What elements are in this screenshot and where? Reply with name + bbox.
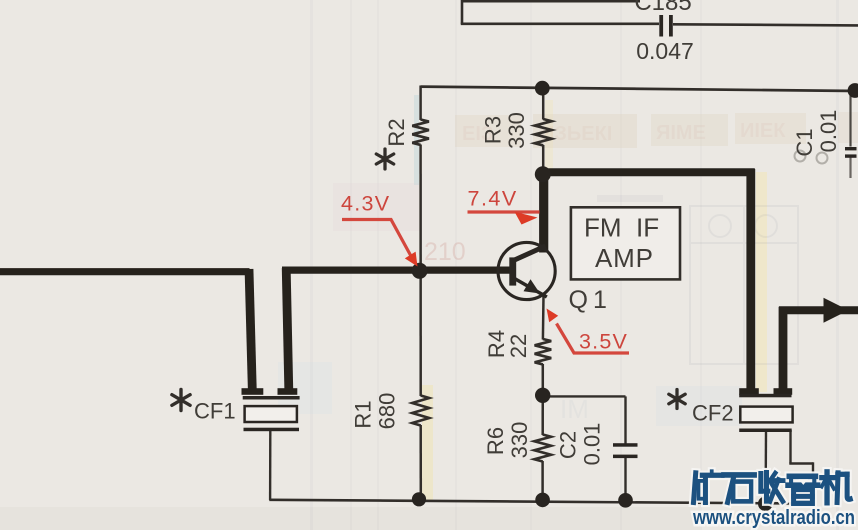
svg-text:www.crystalradio.cn: www.crystalradio.cn <box>692 506 855 529</box>
watermark char shi <box>724 475 754 502</box>
svg-text:ИЗЬЕКІ: ИЗЬЕКІ <box>540 123 612 145</box>
watermark char shou <box>761 473 783 502</box>
wire C2 branch vertical upper <box>624 396 626 443</box>
watermark char shi <box>724 475 754 502</box>
4.3V arrowhead <box>405 252 418 267</box>
resistor R3 zigzag <box>535 119 552 145</box>
wire left vertical R2/R1 branch upper <box>419 86 422 121</box>
svg-text:330: 330 <box>507 422 532 459</box>
watermark char kuang <box>694 471 723 502</box>
svg-text:0.047: 0.047 <box>636 38 694 64</box>
3.5V arrowhead <box>547 309 559 323</box>
wire CF2 right lead vertical <box>789 430 791 464</box>
FM IF AMP function box <box>571 207 680 279</box>
wire CF2 left terminal foot <box>739 388 759 395</box>
wire C185 right horizontal <box>673 24 858 25</box>
wire bottom ground rail <box>269 500 815 504</box>
node R1/ground rail <box>412 492 426 506</box>
node supply/R3 top <box>535 81 550 96</box>
ceramic filter CF2 body <box>739 394 792 432</box>
resistor R4 zigzag <box>535 339 552 364</box>
wire R3 vertical lower <box>542 145 545 172</box>
asterisk for CF1 <box>172 390 190 411</box>
svg-text:C1: C1 <box>792 128 817 156</box>
capacitor C185 plates <box>659 15 673 37</box>
ceramic filter CF1 body <box>243 396 300 431</box>
wire CF1 left terminal foot <box>242 388 264 395</box>
wire emitter to R4 <box>542 296 545 340</box>
svg-text:Q: Q <box>569 286 588 314</box>
svg-text:0.01: 0.01 <box>816 110 841 153</box>
watermark char shou <box>761 473 783 502</box>
wire thick base bus to Q1 <box>282 267 511 274</box>
7.4V arrowhead <box>515 212 538 225</box>
wire CF1 bottom lead <box>269 431 272 500</box>
wire thick collector bus horizontal <box>540 168 755 176</box>
wire C185 left horizontal <box>461 22 659 25</box>
svg-text:R1: R1 <box>351 400 376 428</box>
svg-text:ЯІМЕ: ЯІМЕ <box>656 122 706 144</box>
svg-text:3.5V: 3.5V <box>579 330 628 354</box>
wire R3 vertical upper <box>542 88 545 120</box>
wire R6 to bottom rail <box>541 461 544 500</box>
svg-text:680: 680 <box>375 393 400 430</box>
asterisk for CF2 <box>669 390 685 409</box>
output signal arrowhead <box>824 298 849 323</box>
svg-text:IF: IF <box>636 213 659 243</box>
svg-text:R2: R2 <box>384 118 409 146</box>
wire thick CF1 left drop <box>249 269 252 390</box>
wire C1 bottom lead <box>849 158 851 179</box>
node supply/C1 right <box>848 83 858 98</box>
3.5V leader underline <box>557 324 630 354</box>
wire C2 branch vertical lower <box>624 458 626 501</box>
wire R4 to R6 <box>541 364 544 435</box>
node R6/ground rail <box>535 493 550 508</box>
svg-text:C185: C185 <box>634 0 691 16</box>
wire thick CF2 right riser <box>779 307 788 391</box>
wire C2 branch horizontal <box>543 395 626 397</box>
svg-text:CF2: CF2 <box>692 401 734 426</box>
svg-text:CF1: CF1 <box>194 399 236 424</box>
wire C185 left corner vertical <box>461 0 464 24</box>
svg-text:ИІЕК: ИІЕК <box>740 120 786 142</box>
REDS <box>341 187 629 354</box>
watermark char ji <box>822 472 851 503</box>
wire thick collector riser <box>539 169 548 253</box>
transistor Q1 <box>498 242 555 299</box>
svg-text:22: 22 <box>506 334 531 358</box>
wire CF2 right lead drop <box>812 462 814 503</box>
watermark yin notch <box>799 479 808 485</box>
svg-text:0.01: 0.01 <box>580 423 605 466</box>
wire thick CF2 left drop <box>746 169 755 390</box>
svg-text:210: 210 <box>424 238 466 266</box>
resistor R1 zigzag <box>412 396 429 426</box>
wire top partial horizontal <box>462 0 640 3</box>
wire top supply rail horizontal <box>421 87 858 91</box>
svg-text:7.4V: 7.4V <box>468 187 518 211</box>
watermark char yin <box>788 476 818 503</box>
resistor R6 zigzag <box>534 435 551 462</box>
svg-text:FM: FM <box>584 213 622 243</box>
watermark char ji <box>822 472 851 503</box>
wire CF2 bottom lead <box>764 432 767 504</box>
svg-text:330: 330 <box>504 112 529 149</box>
wire CF2 right terminal foot <box>774 388 793 395</box>
node CF2/ground rail <box>758 496 773 511</box>
WATERMARK <box>692 471 855 529</box>
asterisk for R2 <box>376 149 393 169</box>
node emitter/R4/R6/C2 <box>535 388 550 403</box>
watermark char yin <box>788 476 818 503</box>
watermark char kuang <box>694 471 723 502</box>
svg-text:1: 1 <box>593 286 607 314</box>
svg-text:C2: C2 <box>556 431 581 459</box>
node C2/ground rail <box>618 493 633 508</box>
wire thick output run to right edge <box>779 306 858 314</box>
svg-text:R6: R6 <box>483 427 508 455</box>
svg-text:AMP: AMP <box>595 243 654 273</box>
PARTS <box>172 15 857 462</box>
wire thick CF1 right drop <box>286 268 289 390</box>
svg-text:4.3V: 4.3V <box>341 192 390 216</box>
4.3V leader underline <box>342 220 412 258</box>
wire left vertical R2/R1 branch lower <box>419 425 422 500</box>
wire CF2 right lead horizontal <box>789 462 813 464</box>
resistor R2 zigzag <box>412 120 429 145</box>
svg-text:IM: IM <box>560 394 589 424</box>
wire thick input bus from left edge <box>0 268 250 275</box>
node collector/R3 <box>535 166 551 182</box>
wire CF1 right terminal foot <box>278 388 298 395</box>
capacitor C2 plates <box>613 443 638 458</box>
node base/R2/R1 <box>412 263 428 279</box>
wire left vertical R2/R1 branch middle <box>419 145 422 397</box>
capacitor C1 plates <box>845 147 857 158</box>
svg-text:R3: R3 <box>481 116 506 144</box>
7.4V leader underline <box>468 210 540 213</box>
wire C1 top lead <box>849 90 851 147</box>
